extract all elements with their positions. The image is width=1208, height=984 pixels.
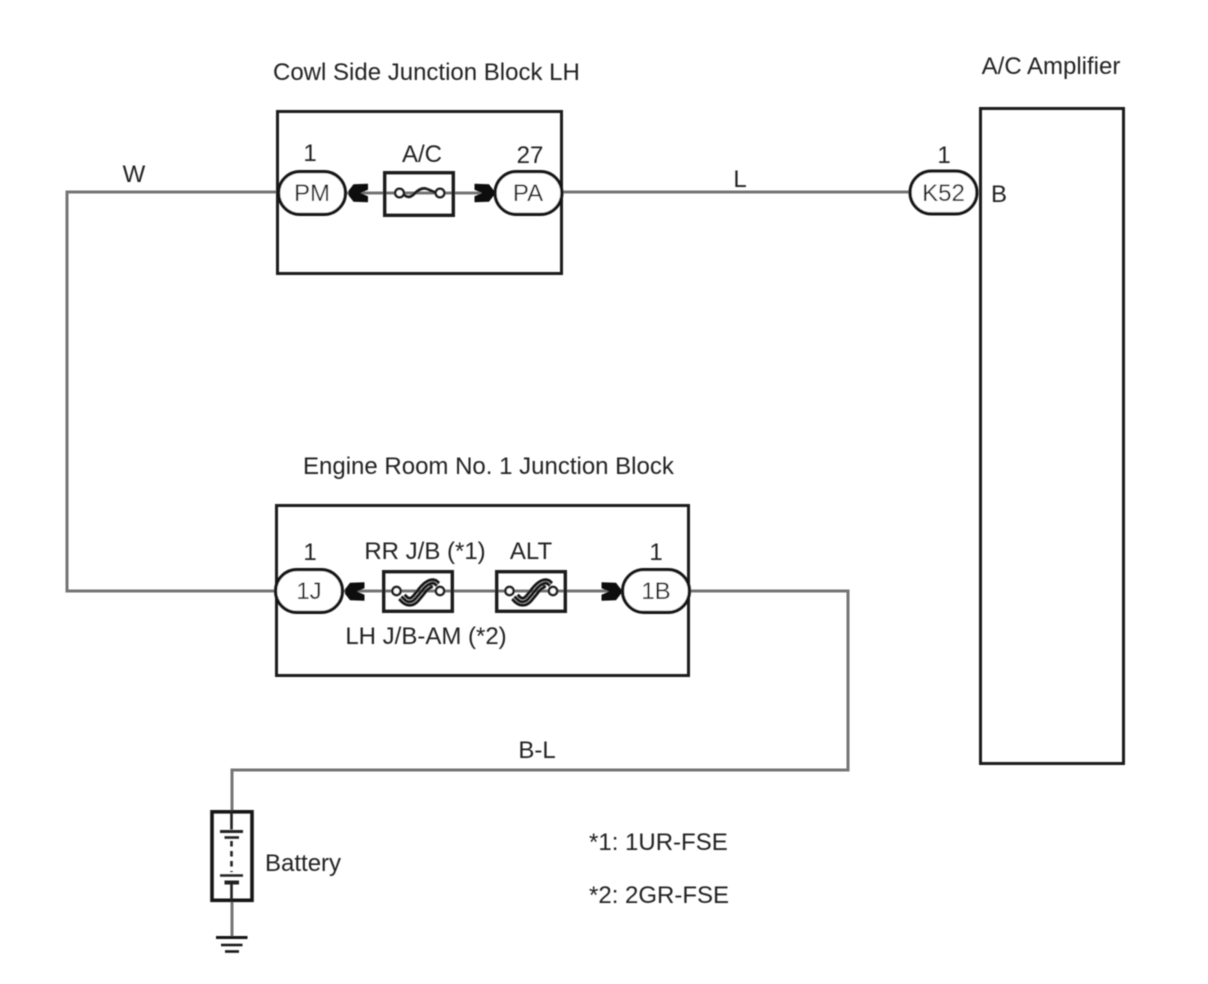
svg-text:PM: PM <box>294 180 330 207</box>
svg-text:Cowl Side Junction Block LH: Cowl Side Junction Block LH <box>273 59 580 86</box>
svg-text:1: 1 <box>937 142 950 169</box>
svg-text:B-L: B-L <box>518 737 555 764</box>
svg-text:Engine Room No. 1 Junction Blo: Engine Room No. 1 Junction Block <box>303 453 675 480</box>
svg-text:B: B <box>991 181 1007 208</box>
svg-text:1: 1 <box>303 539 316 566</box>
svg-text:ALT: ALT <box>510 538 553 565</box>
svg-text:L: L <box>733 166 746 193</box>
svg-text:RR J/B (*1): RR J/B (*1) <box>364 538 485 565</box>
svg-text:*1: 1UR-FSE: *1: 1UR-FSE <box>589 829 728 856</box>
svg-text:W: W <box>123 161 146 188</box>
svg-text:PA: PA <box>513 180 543 207</box>
svg-text:K52: K52 <box>922 180 965 207</box>
svg-text:LH J/B-AM (*2): LH J/B-AM (*2) <box>345 623 506 650</box>
svg-text:1J: 1J <box>296 578 321 605</box>
svg-text:*2: 2GR-FSE: *2: 2GR-FSE <box>589 882 729 909</box>
svg-text:1: 1 <box>649 539 662 566</box>
svg-text:A/C: A/C <box>402 141 442 168</box>
svg-text:A/C Amplifier: A/C Amplifier <box>982 53 1121 80</box>
svg-text:Battery: Battery <box>265 850 341 877</box>
svg-text:27: 27 <box>517 142 544 169</box>
svg-text:1B: 1B <box>641 578 670 605</box>
svg-text:1: 1 <box>303 140 316 167</box>
